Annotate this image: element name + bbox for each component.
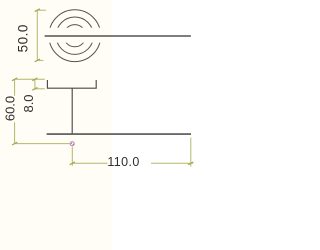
- lever grip line (front view): [45, 35, 191, 37]
- rose outer circle (front view): [49, 10, 101, 62]
- svg-text:8.0: 8.0: [21, 94, 36, 112]
- dim 50 vertical line: [36, 10, 38, 60]
- tick at dim 110 left: [70, 162, 75, 165]
- tick at dim 60 top: [12, 78, 17, 81]
- magenta centre marker: [70, 142, 74, 146]
- tick at dim 8 bottom: [32, 87, 37, 90]
- dim 60 bottom extension to marker: [15, 143, 70, 145]
- dim 60 vertical upper segment: [14, 79, 16, 96]
- tick at dim 50 bottom: [35, 59, 40, 62]
- faint cream background band on left half: [0, 0, 112, 250]
- lever grip line (side view): [47, 133, 191, 135]
- dim 60/8 shared top extension: [15, 78, 45, 80]
- svg-text:110.0: 110.0: [107, 155, 139, 169]
- tick at dim 8 top: [32, 78, 37, 81]
- dim 50 top extension: [37, 9, 46, 11]
- tick at dim 110 right: [188, 162, 193, 165]
- svg-text:60.0: 60.0: [3, 96, 18, 121]
- dim 110 right extension from lever end: [190, 138, 192, 167]
- dim 60 vertical lower segment: [14, 122, 16, 143]
- tick at dim 50 top: [35, 9, 40, 12]
- dim 50 bottom extension: [37, 59, 43, 61]
- spindle stem (side view): [71, 88, 73, 133]
- dim 8 vertical line: [34, 79, 36, 89]
- tick at dim 60 bottom: [12, 142, 17, 145]
- rose inner circle (front view): [64, 25, 86, 47]
- rose profile (side view): [47, 80, 96, 88]
- dim 110 left segment: [72, 162, 107, 164]
- dim 110 right segment: [151, 162, 193, 164]
- dim 8 bottom extension: [35, 88, 45, 90]
- rose middle circle (front view): [56, 17, 93, 54]
- dim 110 drop from marker: [71, 147, 73, 166]
- svg-text:50.0: 50.0: [16, 24, 31, 52]
